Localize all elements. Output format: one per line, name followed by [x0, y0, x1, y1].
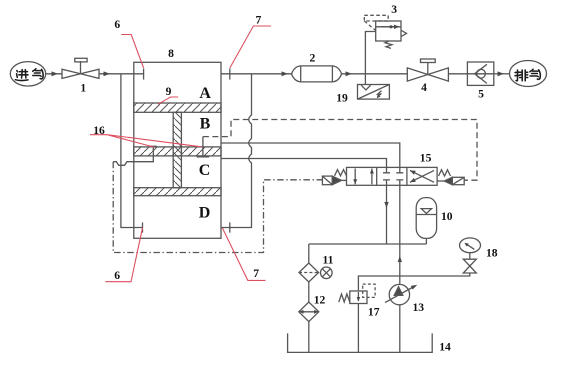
svg-text:16: 16 — [93, 124, 105, 137]
svg-text:18: 18 — [486, 247, 498, 260]
svg-text:6: 6 — [114, 269, 120, 282]
svg-text:4: 4 — [421, 81, 427, 94]
svg-text:2: 2 — [310, 52, 316, 65]
svg-text:D: D — [199, 204, 211, 221]
svg-text:10: 10 — [441, 210, 453, 223]
svg-text:13: 13 — [413, 301, 425, 314]
svg-text:C: C — [199, 162, 211, 179]
svg-text:8: 8 — [168, 47, 174, 60]
svg-text:17: 17 — [368, 306, 380, 319]
svg-text:19: 19 — [336, 91, 348, 104]
svg-text:6: 6 — [114, 18, 120, 31]
svg-text:9: 9 — [166, 85, 172, 98]
svg-text:A: A — [199, 85, 211, 102]
svg-text:3: 3 — [391, 3, 397, 16]
svg-text:7: 7 — [256, 14, 262, 27]
svg-text:B: B — [200, 115, 211, 132]
svg-text:14: 14 — [439, 340, 451, 353]
svg-text:11: 11 — [323, 253, 334, 266]
svg-text:5: 5 — [478, 87, 484, 100]
svg-text:7: 7 — [253, 267, 259, 280]
svg-text:15: 15 — [420, 152, 432, 165]
svg-text:1: 1 — [80, 81, 86, 94]
svg-text:12: 12 — [314, 293, 326, 306]
